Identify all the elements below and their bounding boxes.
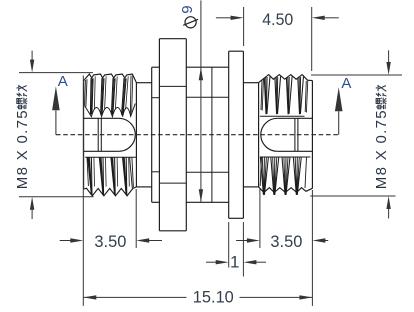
left collar left edge <box>151 67 153 202</box>
right flange top edge <box>229 50 244 52</box>
dimension 1 arrows <box>206 261 216 263</box>
dia 9 leader line <box>200 0 202 202</box>
svg-text:M8 X 0.75: M8 X 0.75 <box>373 109 390 189</box>
hex flange bottom edge <box>159 230 186 232</box>
dimension 15.10 line <box>83 296 186 298</box>
left thread bore bottom line <box>84 150 119 152</box>
left thread top crest silhouette <box>84 74 137 83</box>
right flange bottom edge <box>229 217 244 219</box>
svg-text:3.50: 3.50 <box>94 232 126 251</box>
center tube divider edge <box>211 67 213 202</box>
thread callout right extension line bottom <box>310 195 395 197</box>
right thread top root line <box>260 115 305 117</box>
left thread bore round end arc <box>119 118 136 151</box>
left neck top edge <box>136 82 151 84</box>
hex flange upper flat line <box>159 85 186 87</box>
dimension 3.50 left extension lines <box>82 76 84 306</box>
svg-text:M8 X 0.75: M8 X 0.75 <box>14 109 31 189</box>
right bore bottom line <box>277 150 312 152</box>
thread label M8 X 0.75 left <box>14 85 31 189</box>
left thread bore top line <box>84 117 119 119</box>
right thread top crest silhouette <box>259 75 313 83</box>
dimension 3.50 left arrows <box>60 240 71 242</box>
left collar bottom edge <box>152 201 160 203</box>
svg-text:3.50: 3.50 <box>270 232 302 251</box>
right bore counterbore lines <box>294 118 296 151</box>
center tube lower inner line <box>186 171 228 173</box>
right thread end face <box>311 81 313 189</box>
svg-text:A: A <box>341 75 351 92</box>
section arrow A right <box>338 111 340 134</box>
dia 9 symbol <box>185 17 196 28</box>
left thread end face <box>83 80 85 189</box>
center tube top edge dia 9 <box>186 66 228 68</box>
svg-text:4.50: 4.50 <box>262 10 293 29</box>
svg-text:A: A <box>58 73 68 90</box>
centerline <box>56 134 339 136</box>
svg-text:1: 1 <box>230 252 239 271</box>
dimension 3.50 right extension lines <box>259 189 261 249</box>
right thread left end face <box>258 83 260 187</box>
right thread bottom crest silhouette <box>259 187 313 193</box>
left collar top edge <box>152 66 160 68</box>
left thread top root scallop <box>85 104 136 117</box>
thread label M8 X 0.75 right <box>373 85 390 189</box>
left thread bottom crest silhouette <box>84 187 137 196</box>
thread callout right bottom arrow <box>388 208 390 218</box>
dimension 3.50 right arrows <box>236 240 247 242</box>
dimension 1 extension lines <box>228 222 230 268</box>
thread callout left extension line top <box>19 72 93 74</box>
dia 9 text <box>179 5 196 13</box>
left thread right end face <box>135 83 137 187</box>
left thread top groove lines <box>89 78 92 114</box>
thread callout left bottom arrow <box>31 209 33 219</box>
left bore counterbore lines <box>97 118 99 151</box>
thread callout left extension line bottom <box>19 196 94 198</box>
hex flange left edge <box>158 39 160 231</box>
right flange left edge <box>228 51 230 218</box>
hex flange lower flat line <box>159 182 186 184</box>
right flange right edge <box>242 51 244 218</box>
svg-text:9: 9 <box>179 5 196 13</box>
left collar lower hex line <box>152 171 160 173</box>
dimension 4.50 arrows <box>216 17 231 19</box>
right bore round end arc <box>261 118 278 151</box>
hex flange right edge <box>185 39 187 231</box>
right neck bottom edge <box>243 186 258 188</box>
svg-text:15.10: 15.10 <box>193 288 234 307</box>
right thread top groove lines <box>264 78 266 114</box>
left neck bottom edge <box>136 186 151 188</box>
left thread bottom root line <box>85 156 136 158</box>
right neck top edge <box>243 82 258 84</box>
thread callout left top arrow <box>31 51 33 61</box>
section arrow A left <box>55 110 57 134</box>
left collar upper hex line <box>152 97 160 99</box>
left thread bottom groove lines <box>88 157 92 195</box>
hex flange top edge <box>159 38 186 40</box>
center tube bottom edge <box>186 201 228 203</box>
center tube upper inner line <box>186 96 228 98</box>
thread callout right extension line top <box>311 74 402 76</box>
right thread bottom root line <box>260 156 311 158</box>
dimension 4.50 extension lines <box>243 7 245 46</box>
thread callout right top arrow <box>388 50 390 62</box>
right thread bottom groove lines <box>260 157 263 195</box>
right bore top line <box>277 117 312 119</box>
